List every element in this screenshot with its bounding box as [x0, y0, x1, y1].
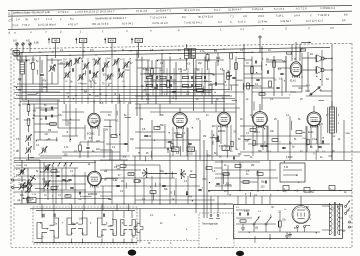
resistor R24	[250, 129, 256, 132]
antenna terminal E	[29, 43, 31, 45]
svg-text:8 b: 8 b	[344, 13, 348, 17]
chassis dashed border right	[351, 43, 353, 247]
wire V6 leads	[78, 175, 87, 177]
svg-text:Spulensatz an Kontakt 4 7: Spulensatz an Kontakt 4 7	[95, 16, 127, 20]
tuning gang C30	[19, 169, 22, 174]
tuned coil L10a	[78, 74, 81, 79]
svg-text:1M: 1M	[346, 211, 349, 213]
svg-text:Wellenschalter 492 AM 47 8 9b: Wellenschalter 492 AM 47 8 9b	[13, 10, 51, 15]
svg-text:1M: 1M	[183, 70, 186, 72]
svg-text:4Ω: 4Ω	[310, 54, 313, 56]
antenna terminal A2	[22, 43, 24, 45]
svg-text:6,8k: 6,8k	[34, 42, 39, 45]
tube cathode comps	[171, 143, 173, 149]
capacitor C22b	[276, 86, 279, 88]
wire right extra ties	[266, 61, 286, 63]
svg-text:3 379/21 b 2: 3 379/21 b 2	[320, 6, 335, 10]
heater switch S7b	[265, 223, 267, 225]
band tag box KW	[75, 38, 77, 44]
svg-text:6,3V: 6,3V	[244, 211, 249, 213]
resistor R1	[32, 63, 35, 70]
capacitor C26	[321, 140, 323, 143]
svg-text:1M: 1M	[289, 157, 292, 159]
svg-text:a 6 4: a 6 4	[294, 13, 300, 17]
keyboard contacts	[210, 196, 212, 213]
svg-text:EABC80: EABC80	[88, 193, 98, 196]
band tag box U8	[131, 38, 133, 44]
svg-text:4 1: 4 1	[240, 27, 244, 31]
IF row caps	[155, 76, 157, 79]
input coil L1	[20, 62, 25, 74]
svg-text:1M: 1M	[216, 61, 219, 63]
wire left mesh	[17, 83, 58, 85]
tuned coil L8	[123, 62, 126, 67]
resistor R28	[257, 173, 263, 176]
wire top bus 1	[14, 47, 330, 52]
wire mid horizontals	[135, 131, 165, 133]
resistor R8	[51, 187, 57, 190]
comb caps	[42, 214, 44, 217]
svg-text:6 2: 6 2	[218, 20, 222, 24]
resistor R15b	[230, 53, 233, 59]
resistor R20b	[247, 83, 250, 89]
output transformer T3	[330, 107, 335, 133]
tube V1 ECH81	[93, 100, 95, 113]
capacitor C20	[256, 78, 259, 80]
chassis dashed border bottom	[11, 247, 352, 249]
wire left low ties	[14, 162, 96, 164]
capacitor C9	[56, 174, 59, 176]
svg-text:41 7: 41 7	[34, 17, 40, 21]
resistor R5	[79, 145, 82, 151]
svg-text:47p: 47p	[178, 68, 183, 71]
capacitor C25	[282, 146, 285, 148]
wire bottom-mid verticals 2	[143, 178, 145, 204]
svg-text:5 44 1: 5 44 1	[276, 13, 284, 17]
svg-text:5 2 x 8 4: 5 2 x 8 4	[274, 7, 285, 11]
svg-text:1M: 1M	[105, 130, 108, 132]
ground sym	[286, 232, 288, 236]
PSU ground 2	[289, 232, 291, 235]
tube V4 EF41b	[259, 104, 261, 112]
wire bottom bus 1	[14, 203, 233, 205]
switch contact K6	[110, 220, 117, 236]
switch contact K3	[67, 218, 76, 235]
capacitor C21b	[280, 72, 283, 74]
resistor R14	[197, 89, 204, 92]
padder coil L11b	[41, 147, 44, 152]
V6 area dots	[52, 189, 53, 190]
chassis dashed border top	[11, 43, 352, 49]
wire comb feeds	[41, 204, 43, 211]
rectifier tube V8 B7	[300, 196, 302, 206]
svg-text:5 17 2: 5 17 2	[238, 20, 246, 24]
svg-text:1M: 1M	[48, 130, 51, 132]
electrolytic C40	[283, 186, 289, 191]
wire left verticals	[16, 53, 18, 60]
resistor R25	[272, 139, 278, 142]
wire V2V3 drops band	[135, 107, 240, 109]
capacitor C3c	[50, 115, 52, 118]
harness junction dots	[69, 86, 70, 87]
capacitor C19c	[162, 184, 165, 186]
svg-text:1M: 1M	[24, 165, 27, 167]
negative feedback wire	[306, 95, 332, 97]
mains transformer T4 core	[333, 202, 335, 236]
output tube V7 EL41 leads	[291, 44, 293, 61]
wire right verticals	[243, 44, 245, 150]
tuned coil L9	[64, 72, 67, 77]
svg-text:A E: A E	[26, 40, 30, 43]
wire bottom bus 2	[30, 208, 233, 210]
svg-text:11 0 12 6 41 2: 11 0 12 6 41 2	[306, 19, 323, 23]
speaker LS1	[317, 55, 321, 62]
resistor R15	[235, 63, 238, 70]
svg-text:1M: 1M	[138, 181, 141, 183]
wire density mesh verticals upper	[57, 60, 59, 84]
svg-text:U: U	[225, 146, 227, 150]
wire left mid horizontals	[22, 99, 60, 101]
capacitor C3	[44, 116, 46, 119]
wire grid feed	[252, 91, 296, 93]
capacitor C18	[216, 136, 218, 139]
pot P1	[33, 178, 36, 180]
input knot ground	[27, 196, 29, 199]
IF row verticals	[145, 68, 147, 96]
svg-text:2M: 2M	[104, 171, 107, 173]
svg-text:Tastenaggregat: Tastenaggregat	[202, 223, 218, 226]
wire PSU bottom	[238, 231, 320, 233]
comb unit top leads	[41, 211, 43, 218]
wire V1 cathode	[91, 126, 93, 142]
svg-text:a b: a b	[330, 26, 334, 30]
wire top bus 2	[14, 51, 302, 56]
resistor R19	[150, 191, 156, 194]
svg-text:3 6 51 14 a 9: 3 6 51 14 a 9	[152, 21, 168, 25]
svg-text:5Ω: 5Ω	[326, 79, 329, 81]
wire right ties	[244, 65, 262, 67]
padder coil L10	[26, 135, 29, 140]
capacitor C15	[227, 74, 230, 76]
speaker LS2	[317, 66, 321, 73]
svg-text:C: C	[11, 18, 13, 22]
wire mid verticals	[139, 104, 141, 160]
capacitor C19b	[116, 184, 119, 186]
padder coil L11	[26, 147, 29, 152]
svg-text:2M: 2M	[140, 119, 143, 121]
svg-text:2x 614 b 7 3: 2x 614 b 7 3	[156, 8, 171, 12]
wire tube pin drops	[84, 125, 86, 140]
V6 area verticals	[43, 162, 45, 192]
wire avc	[33, 104, 35, 150]
svg-text:301 41 72 8 b: 301 41 72 8 b	[92, 22, 109, 26]
tuned coil L7	[113, 59, 116, 64]
pot contact arrows	[52, 163, 54, 167]
svg-text:31 56 9 4 7: 31 56 9 4 7	[228, 7, 242, 11]
svg-text:9 b: 9 b	[342, 18, 346, 22]
capacitor C28b	[264, 181, 266, 184]
band switch dashed box	[33, 207, 137, 244]
resistor R22c	[259, 93, 265, 95]
resistor R27	[235, 165, 241, 168]
svg-text:4 1 7 2 9: 4 1 7 2 9	[296, 6, 307, 10]
resistor R4	[50, 123, 57, 126]
table rule mid	[8, 11, 352, 16]
svg-text:7 04 2: 7 04 2	[22, 23, 30, 27]
coil row trimmer caps	[71, 68, 73, 71]
resistor R19b	[120, 165, 126, 168]
resistor R19d	[190, 175, 196, 178]
switch contact K1	[37, 223, 47, 239]
capacitor C20b	[254, 61, 256, 64]
electrolytic C42	[329, 186, 335, 191]
resistor row 2	[147, 84, 153, 86]
svg-text:41 6 04 2: 41 6 04 2	[122, 21, 134, 25]
tuned coil L12	[44, 165, 47, 170]
capacitor C6	[124, 142, 127, 144]
tuned coil L10c	[106, 74, 109, 79]
resistor R16	[154, 127, 160, 130]
capacitor C8	[70, 186, 73, 188]
svg-text:10F: 10F	[28, 201, 32, 203]
tuned coil L6	[103, 62, 106, 67]
mains switch S6	[345, 206, 347, 208]
IF row bus lines	[144, 73, 212, 75]
resistor R21	[273, 61, 276, 68]
svg-text:4 47a 2 8: 4 47a 2 8	[252, 7, 264, 11]
heater switch S7a	[253, 223, 255, 225]
svg-text:2M: 2M	[203, 136, 206, 138]
capacitor C14	[214, 82, 216, 85]
wire control mesh	[14, 167, 60, 169]
svg-text:2x500: 2x500	[16, 165, 23, 167]
rectifier pins	[297, 226, 299, 228]
junction dots scatter	[55, 65, 56, 66]
switch contact K2	[50, 218, 59, 238]
wire PSU lamp rail	[236, 223, 253, 225]
resistor R28b	[223, 173, 229, 176]
mid tag box U	[222, 146, 230, 150]
band tag box UKW	[104, 38, 106, 44]
svg-text:A 0: A 0	[13, 40, 17, 43]
tuned coil L13	[44, 181, 47, 186]
svg-text:1 4: 1 4	[16, 17, 20, 21]
mains terminals	[349, 221, 351, 223]
wire pre-PSU	[215, 161, 260, 163]
svg-text:1 c 4: 1 c 4	[46, 17, 52, 21]
svg-text:8 1: 8 1	[70, 17, 74, 21]
resistor R20	[251, 67, 254, 74]
input terminal T1	[12, 179, 14, 181]
tube V6 EABC80	[88, 171, 102, 186]
svg-text:1M: 1M	[18, 90, 21, 92]
table rule top	[8, 5, 352, 10]
phono socket	[134, 224, 143, 233]
chassis dashed border left	[10, 49, 12, 247]
svg-text:AB: AB	[81, 39, 85, 43]
capacitor C41	[232, 76, 235, 78]
capacitor C24	[260, 144, 263, 146]
table label separator	[11, 11, 13, 30]
table rule bottom	[8, 24, 352, 29]
resistor R19e	[206, 167, 212, 170]
wire IF horizontals	[140, 73, 188, 75]
wire left mid ties	[19, 53, 21, 160]
svg-text:E: E	[9, 12, 11, 16]
svg-text:EBF80: EBF80	[218, 130, 226, 133]
input terminal T2	[12, 186, 14, 188]
capacitor C5	[86, 146, 89, 148]
resistor R30	[279, 221, 281, 227]
tone switch S5	[310, 93, 312, 95]
trimmer T1	[49, 65, 52, 70]
resistor R7	[51, 170, 57, 173]
dashed connector comb to keyboard	[137, 240, 199, 242]
switch contact K8	[129, 220, 136, 236]
resistor R21b	[269, 81, 272, 87]
comb wire top rail	[36, 210, 135, 212]
svg-text:TA: TA	[132, 236, 135, 239]
svg-text:8 4 1: 8 4 1	[214, 8, 220, 12]
comb box corner tag	[27, 198, 36, 203]
harness crossing verticals	[63, 86, 65, 104]
svg-text:1M: 1M	[56, 186, 59, 188]
PSU feed drops	[237, 196, 239, 205]
right bus extension	[331, 106, 333, 160]
tuned coil L5	[94, 59, 97, 64]
V6 area horizontals	[40, 171, 60, 173]
resistor R3	[27, 119, 30, 126]
svg-text:EL41: EL41	[290, 80, 296, 83]
svg-text:12 8 4a: 12 8 4a	[258, 19, 267, 23]
svg-text:7 13 a 2 6 b 4: 7 13 a 2 6 b 4	[150, 15, 167, 19]
wire phono	[139, 209, 141, 224]
PSU left cluster	[238, 213, 240, 216]
mains transformer T4 right winding	[339, 203, 341, 235]
harness bus lines	[14, 86, 200, 88]
capacitor C13	[172, 90, 175, 92]
svg-text:4 7 8 9 2: 4 7 8 9 2	[58, 10, 69, 14]
svg-text:2 8 a: 2 8 a	[258, 14, 264, 18]
capacitor C7	[62, 178, 65, 180]
svg-text:30p: 30p	[192, 56, 197, 59]
capacitor C2	[44, 108, 46, 111]
wire density mesh upper	[47, 59, 62, 61]
svg-text:30: 30	[25, 17, 28, 21]
mid tag box TA	[167, 148, 169, 154]
resistor R19c	[134, 180, 140, 183]
wire V6 out	[94, 186, 96, 204]
tube V5 EL12	[313, 106, 315, 112]
svg-text:7 1: 7 1	[230, 14, 234, 18]
stub wires	[37, 70, 39, 75]
transformer leads	[322, 205, 330, 207]
antenna tag box AB	[13, 51, 19, 56]
capacitor C16	[144, 134, 147, 136]
ink blob right	[236, 251, 244, 256]
svg-text:ECH81: ECH81	[87, 133, 95, 136]
capacitor C12	[154, 86, 157, 88]
output tube V7 EL41	[290, 62, 302, 76]
tube V2 EF41	[179, 108, 181, 113]
switch contact K7	[121, 220, 128, 236]
band tag box AM	[48, 38, 50, 44]
capacitor C1	[40, 73, 43, 75]
resistor R2	[27, 105, 30, 112]
wire speaker feed	[302, 57, 316, 59]
capacitor C3b	[50, 107, 52, 110]
svg-text:KW: KW	[137, 39, 142, 43]
PSU ground 1	[242, 224, 244, 228]
resistor row 1	[147, 76, 153, 78]
wire osc section	[69, 104, 71, 142]
block box	[280, 163, 305, 182]
input transformer knot	[26, 180, 29, 185]
tube V3 EABC	[223, 108, 225, 113]
wire bottom-mid horizontals	[100, 169, 141, 171]
svg-text:9 2: 9 2	[182, 15, 186, 19]
svg-text:4 51 a 7: 4 51 a 7	[68, 22, 78, 26]
wire bottom-mid verticals	[111, 150, 113, 204]
pot P3 star	[180, 169, 182, 174]
wire right mid verticals	[267, 126, 269, 160]
terminal post B	[259, 36, 261, 38]
resistor R40	[206, 54, 209, 61]
band box leads	[55, 43, 57, 58]
capacitor C11	[78, 192, 80, 195]
wire supply rail 2	[215, 195, 352, 197]
resistor R23	[301, 49, 306, 51]
capacitor C19d	[198, 188, 201, 190]
tuned coil L10b	[92, 72, 95, 77]
keyboard unit dashed box	[199, 213, 234, 248]
wire osc ties	[62, 111, 84, 113]
coil row verticals	[63, 58, 65, 86]
capacitor C28c	[232, 157, 234, 160]
capacitor C10	[68, 178, 71, 180]
wire IF verticals	[136, 50, 138, 116]
antenna terminal A1	[16, 43, 18, 45]
capacitor C17	[168, 140, 171, 142]
svg-text:30 37 9 51 8: 30 37 9 51 8	[198, 15, 213, 19]
wire right mid horizontals	[240, 125, 268, 127]
svg-text:30 a 4 17 2 9: 30 a 4 17 2 9	[184, 8, 200, 12]
switch contact K5	[98, 218, 107, 237]
svg-text:L 4 5 6 8 9 13 14 17 19 21 24: L 4 5 6 8 9 13 14 17 19 21 24 a 7	[75, 9, 115, 14]
bus junction dots	[21, 52, 22, 53]
svg-text:KW: KW	[110, 39, 115, 43]
svg-text:3 1 4: 3 1 4	[12, 23, 18, 27]
comb bottom rail	[34, 242, 137, 244]
pot P2 star	[146, 173, 148, 178]
wire br interconnect	[269, 234, 271, 240]
IF transformer T2	[185, 49, 189, 59]
ink blob left	[128, 250, 136, 256]
resistor R6	[111, 135, 117, 138]
wire IF verticals 2	[204, 57, 206, 97]
resistor R28c	[243, 181, 249, 184]
switch contact K4	[78, 218, 87, 235]
electrolytic C41	[304, 188, 310, 193]
wire supply rail 1	[208, 190, 352, 192]
resistor R18	[128, 173, 134, 176]
mid tag box TB	[187, 147, 195, 151]
feedback arrow	[301, 41, 311, 44]
resistor R9	[65, 195, 71, 197]
input knot cap	[20, 170, 22, 173]
capacitor C27b	[216, 182, 219, 184]
svg-text:TA: TA	[174, 147, 177, 151]
